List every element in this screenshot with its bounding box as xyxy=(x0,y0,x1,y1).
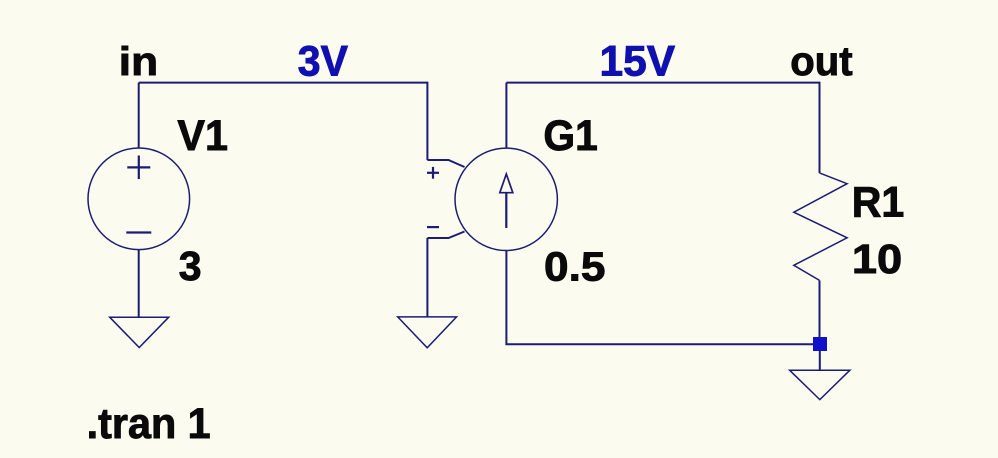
wire G1 control bottom pin xyxy=(427,232,464,239)
value 10 xyxy=(852,237,902,283)
svg-text:.tran 1: .tran 1 xyxy=(87,399,211,447)
spice directive .tran 1 xyxy=(87,399,211,447)
voltage source V1 xyxy=(88,148,190,250)
node label out xyxy=(790,39,852,84)
svg-text:10: 10 xyxy=(852,237,902,283)
value 3 xyxy=(179,243,202,289)
designator R1 xyxy=(852,178,905,226)
designator V1 xyxy=(177,111,228,159)
resistor R1 xyxy=(794,173,847,281)
V1 minus sign xyxy=(126,231,151,233)
wire G1 top stub xyxy=(505,83,507,149)
svg-text:G1: G1 xyxy=(543,111,597,159)
G1 plus sign xyxy=(427,172,439,174)
ground (below node out-return) xyxy=(790,370,850,399)
wire V1 bottom stub xyxy=(138,250,140,318)
svg-text:3V: 3V xyxy=(298,37,348,85)
wire G1 control minus to ground stub xyxy=(426,238,428,317)
wire R1 bottom lead xyxy=(819,280,821,337)
ground (below V1) xyxy=(110,317,169,347)
V1 plus sign xyxy=(127,166,150,168)
wire in to G1 control (top-left horizontal) xyxy=(139,83,428,160)
ground (below G1 control) xyxy=(398,317,457,348)
wire V1 top stub xyxy=(138,83,140,149)
svg-text:3: 3 xyxy=(179,243,202,289)
wire G1 control top pin xyxy=(427,160,464,167)
svg-text:R1: R1 xyxy=(852,178,905,226)
value 0.5 xyxy=(544,244,605,290)
node junction square xyxy=(813,337,827,351)
svg-text:0.5: 0.5 xyxy=(544,244,605,290)
wire G1 out to R1 (top-right horizontal) xyxy=(506,83,819,173)
wire node to ground stub xyxy=(819,351,821,370)
designator G1 xyxy=(543,111,597,159)
svg-text:V1: V1 xyxy=(177,111,228,159)
G1 arrow xyxy=(500,174,513,228)
net voltage label 15V xyxy=(600,38,676,85)
current source G1 xyxy=(455,148,557,250)
svg-text:out: out xyxy=(790,39,852,84)
node label in xyxy=(119,39,158,84)
G1 minus sign xyxy=(427,226,439,228)
svg-text:in: in xyxy=(119,39,158,84)
svg-text:15V: 15V xyxy=(600,38,676,85)
net voltage label 3V xyxy=(298,37,348,85)
wire G1 bottom to node (bottom horizontal) xyxy=(506,251,813,345)
